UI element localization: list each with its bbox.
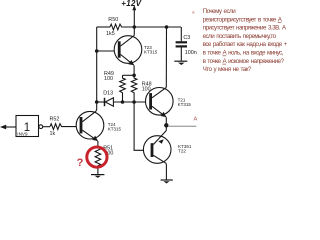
annotation text block <box>203 8 288 73</box>
node emitter junction <box>132 74 136 78</box>
resistor R52 <box>50 117 64 138</box>
red highlight circle around R51 <box>87 147 107 167</box>
wire T23 base <box>97 50 118 52</box>
node rail junction 2 <box>165 25 169 29</box>
svg-text:KT315: KT315 <box>108 126 122 131</box>
wire rail left segment <box>97 26 110 28</box>
svg-text:R50: R50 <box>108 17 118 23</box>
svg-text:D13: D13 <box>103 91 113 97</box>
node R49 bottom <box>121 100 125 104</box>
wire node A probe <box>168 125 196 127</box>
svg-text:KT315: KT315 <box>144 50 158 55</box>
wire junction to R49 <box>123 74 135 76</box>
resistor R48 <box>131 75 151 102</box>
wire rail to C3 <box>180 27 182 41</box>
wire T24 emitter to R51 <box>97 141 99 148</box>
svg-text:C3: C3 <box>183 35 190 41</box>
svg-text:R52: R52 <box>50 117 60 123</box>
wire T23 collector <box>133 27 135 36</box>
svg-text:если поставить перемычку,то: если поставить перемычку,то <box>203 33 277 40</box>
svg-text:Что у меня не так?: Что у меня не так? <box>203 66 252 73</box>
wire T21 emitter <box>165 117 167 125</box>
wire R52 to T24 base <box>63 126 80 128</box>
power +12V <box>121 0 141 27</box>
wire base bus to T22 <box>134 102 151 150</box>
svg-text:KT315: KT315 <box>178 102 192 107</box>
capacitor C3 <box>176 35 197 56</box>
svg-text:резисторприсутствует в точке А: резисторприсутствует в точке А <box>203 16 283 23</box>
diode D13 <box>103 91 113 107</box>
svg-text:1k5: 1k5 <box>106 31 115 37</box>
transistor T23 KT315 <box>114 36 158 66</box>
inverter output bubble <box>39 125 43 129</box>
logic inverter INV9 <box>16 116 39 137</box>
svg-text:+12V: +12V <box>121 0 141 8</box>
svg-text:в точке А ноль, на входе мину: в точке А ноль, на входе минус, <box>203 50 284 57</box>
svg-text:100: 100 <box>104 76 113 82</box>
node T23 base junction <box>95 49 99 53</box>
transistor T24 KT315 <box>76 111 121 141</box>
node A junction <box>164 123 168 127</box>
node rail junction 1 <box>133 25 137 29</box>
red annotation mark <box>192 11 195 14</box>
transistor T22 KT361 <box>143 131 191 164</box>
transistor T21 KT315 <box>146 87 192 117</box>
svg-text:?: ? <box>77 157 84 169</box>
ground below T22 <box>161 180 173 184</box>
wire R51 to ground <box>97 167 99 175</box>
svg-text:в точке А искомое напряжение?: в точке А искомое напряжение? <box>203 58 285 65</box>
svg-text:INV9: INV9 <box>17 131 28 136</box>
resistor R51 <box>95 145 113 166</box>
ground below R51 <box>91 175 104 178</box>
wire T21 collector <box>165 27 167 87</box>
svg-text:1k: 1k <box>50 131 56 137</box>
wire T23 emitter <box>133 65 135 75</box>
svg-text:A: A <box>194 117 198 123</box>
svg-text:T22: T22 <box>178 149 186 154</box>
wire bottom rail <box>113 101 149 103</box>
node R48 bottom <box>132 100 136 104</box>
wire T22 emitter <box>165 125 167 130</box>
ground below C3 <box>174 61 187 65</box>
wire bubble to R52 <box>43 126 50 128</box>
wire D13 cathode lead <box>97 101 106 103</box>
wire +12V rail <box>122 26 181 28</box>
wire T24 collector <box>95 102 98 111</box>
wire T22 collector to ground <box>165 163 167 179</box>
svg-text:все работает как надо,на входе: все работает как надо,на входе + <box>203 40 288 48</box>
resistor R50 <box>106 17 122 37</box>
svg-text:присутствует напряжение 3.3В.: присутствует напряжение 3.3В. А <box>203 25 287 32</box>
input arrow <box>0 125 6 130</box>
svg-text:Почему если: Почему если <box>203 8 237 15</box>
resistor R49 <box>104 71 125 102</box>
wire input to INV9 <box>2 126 16 128</box>
svg-text:100n: 100n <box>185 50 197 56</box>
wire left vertical bus <box>96 27 98 102</box>
wire C3 to ground <box>180 48 182 61</box>
node D13 cathode junction <box>95 100 99 104</box>
